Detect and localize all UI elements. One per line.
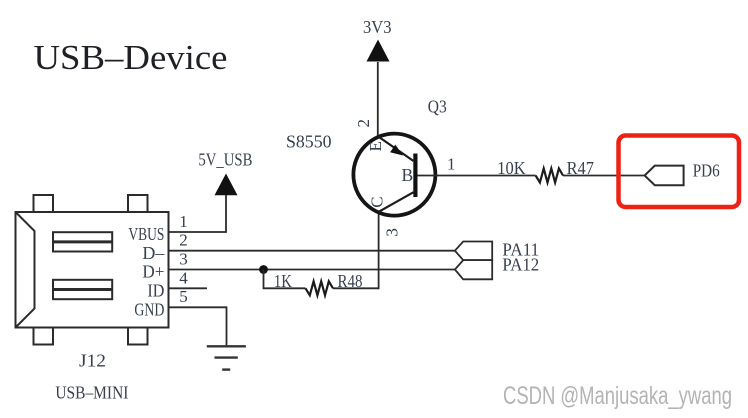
svg-text:PA12: PA12	[502, 255, 539, 275]
resistor R47	[536, 169, 563, 183]
wire D+ to PA12	[169, 269, 455, 271]
wire junction to R48	[264, 270, 306, 289]
transistor Q3 emitter arrow (PNP)	[390, 145, 403, 156]
transistor Q3 base bar	[413, 154, 417, 198]
svg-text:VBUS: VBUS	[128, 224, 164, 244]
svg-text:GND: GND	[134, 300, 164, 320]
connector J12 top mounting tab left	[34, 195, 54, 212]
wire VBUS pin1 to 5V_USB	[169, 195, 227, 232]
power symbol 5V_USB arrow	[215, 174, 238, 196]
connector J12 lower contact block	[53, 280, 112, 299]
svg-text:ID: ID	[147, 280, 164, 300]
svg-text:2: 2	[354, 119, 373, 128]
svg-text:USB–Device: USB–Device	[34, 38, 228, 77]
port PA11	[455, 242, 492, 261]
connector J12 body	[16, 212, 169, 328]
svg-text:D–: D–	[142, 243, 164, 263]
port PD6	[645, 166, 684, 186]
transistor Q3 collector line	[379, 192, 414, 212]
ground	[207, 346, 246, 369]
wire GND pin to ground	[169, 307, 227, 346]
wire ID stub	[169, 287, 208, 289]
highlight red box around PD6	[619, 136, 740, 208]
svg-text:1: 1	[447, 155, 456, 174]
connector J12 upper contact block	[53, 232, 112, 251]
wire R48 to collector	[333, 287, 379, 289]
svg-text:1: 1	[179, 212, 188, 231]
svg-text:3: 3	[383, 228, 402, 237]
transistor Q3 circle	[353, 134, 435, 216]
connector J12 bottom mounting tab right	[128, 328, 148, 345]
wire D- to PA11	[169, 250, 455, 252]
svg-text:B: B	[402, 165, 414, 185]
svg-text:D+: D+	[142, 262, 164, 282]
svg-text:USB–MINI: USB–MINI	[55, 383, 128, 403]
wire emitter to 3V3	[377, 62, 379, 137]
svg-text:E: E	[366, 141, 385, 151]
svg-text:4: 4	[179, 268, 188, 287]
svg-text:5V_USB: 5V_USB	[198, 149, 252, 169]
wire base to R47	[418, 175, 536, 177]
wire collector vertical	[378, 212, 380, 290]
svg-text:C: C	[367, 196, 386, 207]
svg-text:Q3: Q3	[428, 97, 447, 117]
svg-text:3V3: 3V3	[363, 17, 392, 37]
power symbol 3V3 arrow	[367, 40, 390, 62]
svg-text:5: 5	[179, 287, 188, 306]
svg-text:10K: 10K	[497, 158, 526, 178]
svg-text:PD6: PD6	[693, 161, 720, 181]
svg-text:1K: 1K	[274, 271, 292, 291]
connector J12 top mounting tab right	[128, 195, 148, 212]
resistor R48	[306, 281, 334, 295]
transistor Q3 emitter line	[378, 136, 414, 161]
junction dot on D+	[259, 265, 268, 274]
port PA12	[455, 260, 492, 279]
svg-text:J12: J12	[79, 350, 106, 370]
svg-text:3: 3	[179, 250, 188, 269]
svg-text:2: 2	[179, 231, 188, 250]
svg-text:S8550: S8550	[286, 131, 332, 151]
wire R47 to PD6	[563, 175, 645, 177]
connector J12 bottom mounting tab left	[34, 328, 54, 345]
svg-text:CSDN @Manjusaka_ywang: CSDN @Manjusaka_ywang	[503, 382, 732, 410]
connector J12 plug wedge	[16, 212, 35, 328]
